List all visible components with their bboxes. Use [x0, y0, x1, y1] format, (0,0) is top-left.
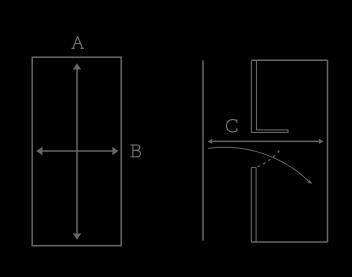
arrowhead swing arc	[307, 180, 312, 184]
door closed double line	[251, 168, 256, 243]
enclosure top edge	[251, 59, 327, 61]
label B	[131, 145, 141, 157]
enclosure right edge	[327, 60, 329, 242]
fixed L panel outline	[251, 60, 288, 132]
arrowhead C right	[319, 139, 324, 144]
label A	[72, 36, 85, 48]
dimension arrow B shaft	[41, 150, 114, 152]
panel rectangle	[32, 57, 121, 246]
enclosure bottom edge	[251, 241, 327, 243]
arrowhead A bottom	[73, 234, 81, 240]
arrowhead B right	[112, 147, 118, 155]
arrowhead A top	[73, 63, 81, 69]
dimension arrow C shaft	[211, 140, 321, 142]
arrowhead C left	[208, 139, 213, 144]
arrowhead B left	[36, 147, 42, 155]
dashed open door line	[258, 148, 282, 167]
dimension arrow A shaft	[76, 68, 78, 235]
swing arc	[208, 147, 309, 181]
label C	[227, 120, 237, 132]
wall line	[202, 60, 204, 240]
